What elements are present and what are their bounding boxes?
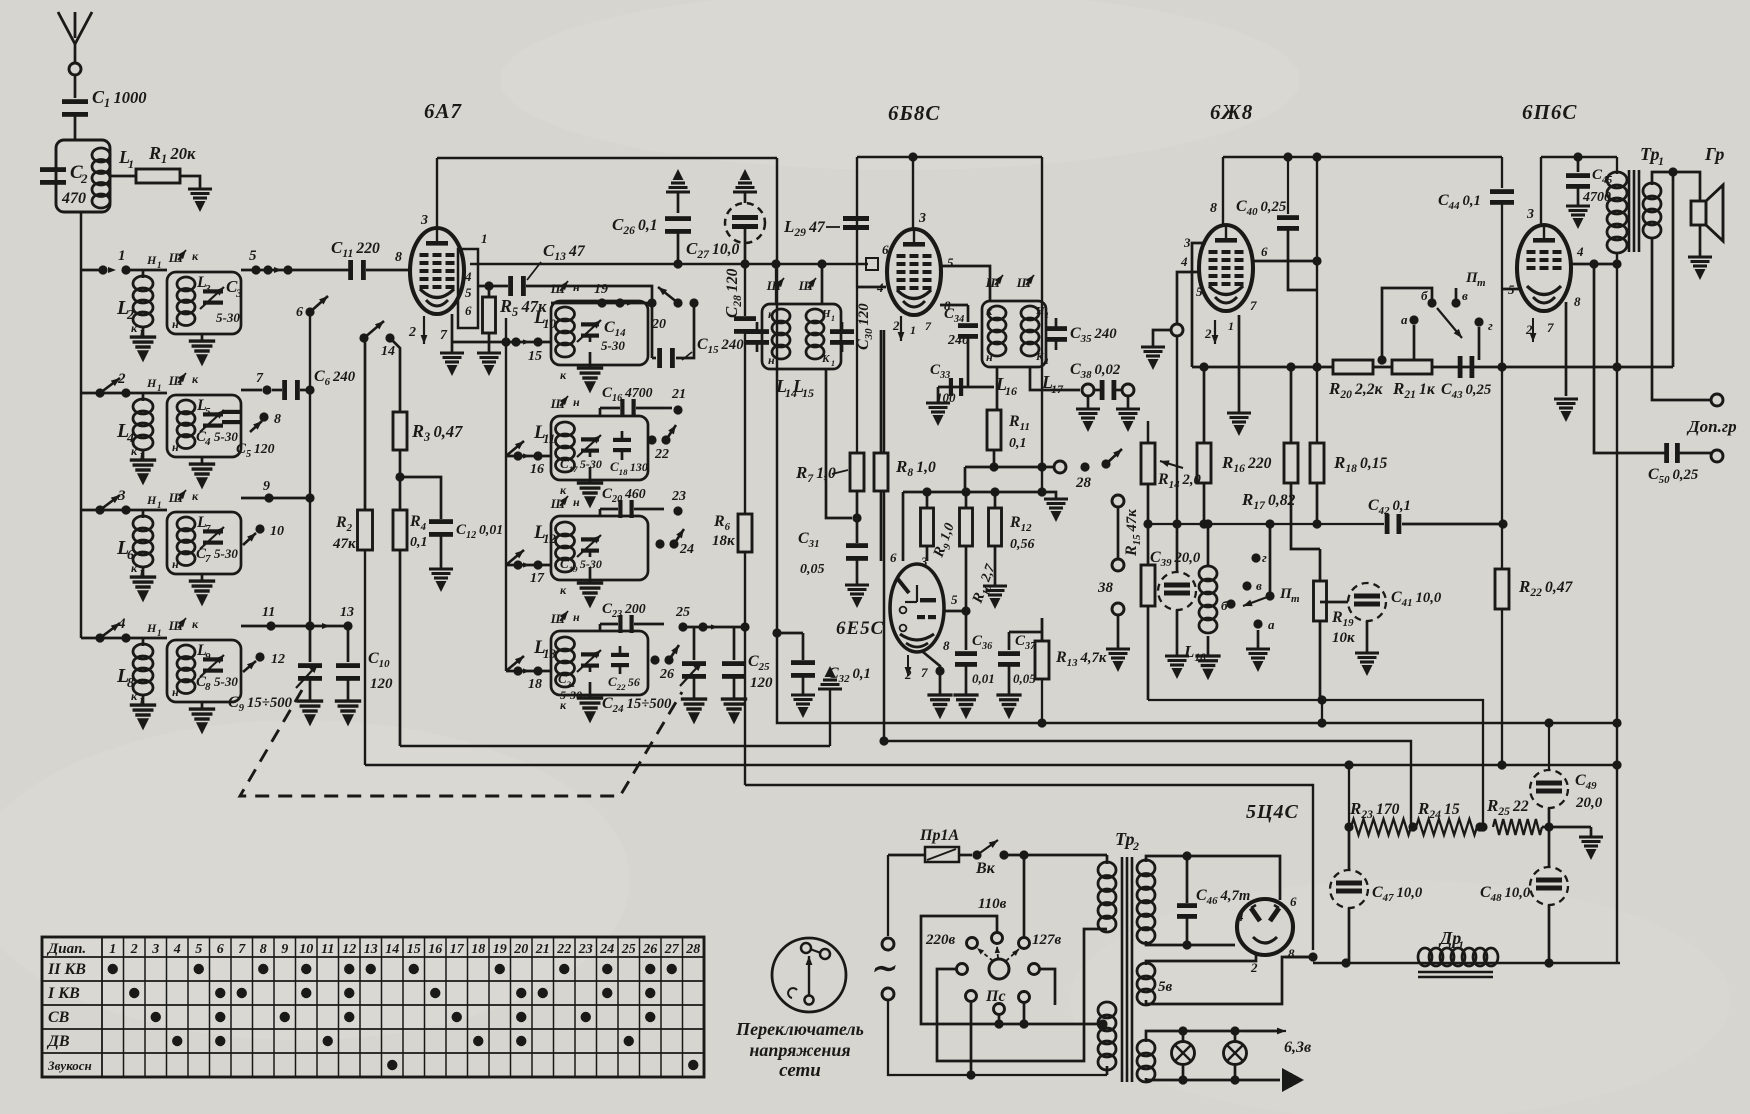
svg-text:R1 20к: R1 20к bbox=[148, 143, 196, 166]
svg-text:0,01: 0,01 bbox=[972, 671, 995, 686]
ground C9 bbox=[297, 679, 323, 726]
stage2 left edge bbox=[856, 157, 858, 287]
mains tilde bbox=[870, 952, 896, 985]
svg-text:19: 19 bbox=[594, 282, 608, 297]
Tr2 6,3v winding bbox=[1137, 1040, 1155, 1082]
capacitor C43 0,25 bbox=[1441, 356, 1491, 401]
svg-text:5: 5 bbox=[465, 285, 472, 300]
svg-text:C1 1000: C1 1000 bbox=[92, 87, 147, 110]
svg-text:2: 2 bbox=[80, 171, 88, 186]
C28 line down bbox=[744, 264, 746, 316]
wire L6 to ground bbox=[142, 568, 145, 576]
svg-text:н: н bbox=[172, 317, 179, 331]
svg-text:20: 20 bbox=[513, 942, 528, 957]
wire C38 right down bbox=[1127, 396, 1130, 408]
contact 4 bbox=[117, 616, 131, 643]
capacitor C37 0,05 bbox=[998, 632, 1036, 686]
svg-text:7: 7 bbox=[205, 553, 211, 565]
rectifier output bbox=[1285, 952, 1318, 961]
contact 9 bbox=[241, 479, 274, 503]
svg-text:R20 2,2к: R20 2,2к bbox=[1328, 379, 1384, 401]
capacitor C33 100 bbox=[930, 362, 963, 405]
svg-text:0,1: 0,1 bbox=[410, 535, 428, 550]
ground C45 bbox=[1566, 188, 1590, 229]
wire R11 to det line bbox=[989, 450, 998, 472]
svg-text:20,0: 20,0 bbox=[1575, 795, 1603, 811]
wire L1 tap to R1 bbox=[110, 175, 136, 178]
paper shading bbox=[0, 720, 630, 1040]
svg-text:2: 2 bbox=[408, 325, 416, 340]
wire lineB to C13 bbox=[506, 285, 508, 288]
terminal Dop.gr lower bbox=[1711, 450, 1723, 462]
coil L12 bbox=[533, 522, 575, 572]
svg-text:к: к bbox=[131, 689, 138, 703]
core symbol row 1 bbox=[168, 248, 199, 265]
wire R19 to bus bbox=[1317, 700, 1326, 728]
svg-text:8: 8 bbox=[260, 942, 267, 957]
resistor R23 170 bbox=[1349, 799, 1411, 835]
resistor R15 47k bbox=[1123, 509, 1155, 606]
wire Pt common bbox=[1265, 519, 1274, 600]
core symbol L13 bbox=[550, 609, 580, 626]
svg-text:R7 1,0: R7 1,0 bbox=[795, 463, 836, 485]
terminal Dop.gr upper bbox=[1711, 394, 1723, 406]
terminal det bbox=[1054, 461, 1066, 473]
svg-text:10: 10 bbox=[299, 942, 313, 957]
label n row 3 bbox=[172, 557, 179, 571]
svg-text:10: 10 bbox=[270, 524, 284, 539]
stage1 box right riser bbox=[829, 690, 831, 746]
svg-text:2: 2 bbox=[1204, 326, 1212, 341]
IF1 coil L15 bbox=[806, 309, 824, 359]
svg-text:3: 3 bbox=[151, 942, 159, 957]
svg-text:7: 7 bbox=[921, 665, 928, 680]
svg-text:1: 1 bbox=[1045, 311, 1049, 320]
label L16 bbox=[995, 374, 1017, 398]
Tr2 primary upper tap bbox=[1084, 929, 1107, 1031]
IF2 coil L17 bbox=[1021, 306, 1039, 356]
label 5Ts4S bbox=[1246, 801, 1299, 823]
node row1 pivot bbox=[98, 265, 116, 274]
wire C38 left down bbox=[1087, 396, 1090, 408]
stage1 box bottom bbox=[400, 745, 830, 747]
Tr2 primary lower bbox=[1098, 1002, 1116, 1075]
wire R12 to ground bbox=[983, 546, 1007, 609]
det line left drop bbox=[902, 492, 905, 561]
svg-text:2: 2 bbox=[892, 318, 900, 333]
svg-text:26: 26 bbox=[659, 667, 674, 682]
wire L2 to ground bbox=[142, 328, 145, 336]
capacitor C28 120 bbox=[722, 268, 756, 333]
grid terminal ground tap bbox=[1141, 330, 1171, 370]
capacitor C12 0,01 bbox=[429, 519, 503, 541]
anode bus 6P6S bbox=[1541, 152, 1617, 161]
wire tank to band bus bbox=[80, 212, 83, 638]
svg-text:7: 7 bbox=[256, 371, 264, 386]
ground L9 bbox=[189, 709, 215, 734]
svg-text:0,05: 0,05 bbox=[1013, 671, 1036, 686]
capacitor C6 240 bbox=[272, 368, 356, 400]
svg-text:28: 28 bbox=[1075, 475, 1092, 491]
svg-text:9: 9 bbox=[263, 479, 270, 494]
grid line B bbox=[478, 285, 506, 288]
label L14 L15 bbox=[775, 376, 814, 400]
tuning gang dashed link bbox=[240, 690, 682, 796]
contact 21 bbox=[664, 387, 686, 415]
wire L17 bottom to C38 bbox=[1030, 367, 1080, 390]
svg-text:5: 5 bbox=[1508, 282, 1515, 297]
resistor R9 1,0 bbox=[921, 492, 961, 561]
wire R1 to ground bbox=[180, 176, 200, 188]
band box L7 bbox=[167, 512, 241, 574]
svg-text:5: 5 bbox=[249, 248, 257, 264]
node C6 bus bbox=[305, 385, 314, 394]
svg-text:12: 12 bbox=[271, 652, 285, 667]
svg-text:5-30: 5-30 bbox=[214, 674, 238, 689]
Pt top wiring bbox=[1382, 288, 1479, 360]
capacitor C23 200 bbox=[600, 601, 664, 633]
svg-text:240: 240 bbox=[947, 333, 969, 348]
Pt bottom contacts bbox=[1221, 550, 1300, 632]
wire L3 to ground bbox=[201, 334, 204, 340]
svg-text:220в: 220в bbox=[925, 932, 956, 948]
wire contact to coils row 2 bbox=[126, 392, 167, 395]
capacitor C46 4,7t bbox=[1177, 856, 1250, 945]
contact 1 bbox=[118, 248, 131, 275]
svg-text:16: 16 bbox=[428, 942, 442, 957]
svg-text:23: 23 bbox=[578, 942, 593, 957]
svg-text:г: г bbox=[1488, 318, 1493, 333]
svg-text:470: 470 bbox=[61, 190, 86, 207]
ground L3 bbox=[189, 341, 215, 366]
mains left wire bbox=[887, 855, 889, 936]
coil L7 bbox=[177, 514, 211, 566]
resistor R5 47k bbox=[483, 286, 548, 333]
svg-text:24: 24 bbox=[599, 942, 614, 957]
svg-text:18: 18 bbox=[528, 677, 542, 692]
svg-text:7: 7 bbox=[440, 328, 448, 343]
pin1 6Zh8 bbox=[1228, 315, 1239, 412]
svg-text:к: к bbox=[768, 307, 775, 321]
pin5 6B8C bbox=[942, 255, 990, 301]
contact 13 bbox=[340, 605, 354, 631]
svg-text:к: к bbox=[560, 483, 567, 497]
svg-text:2: 2 bbox=[117, 371, 126, 387]
label seti bbox=[779, 1060, 821, 1081]
svg-text:к: к bbox=[192, 489, 199, 503]
stage2 top bus bbox=[857, 156, 1042, 159]
contact 11 bbox=[241, 605, 276, 631]
switch Vk bbox=[959, 837, 1009, 877]
svg-text:127в: 127в bbox=[1032, 932, 1062, 948]
wire R7 down bbox=[856, 491, 859, 518]
svg-text:R3 0,47: R3 0,47 bbox=[411, 421, 463, 444]
ground C25 bbox=[721, 677, 747, 724]
svg-text:R18 0,15: R18 0,15 bbox=[1333, 453, 1388, 475]
svg-text:14: 14 bbox=[385, 942, 399, 957]
svg-text:н: н bbox=[573, 610, 580, 624]
svg-text:2: 2 bbox=[130, 942, 138, 957]
bus y743 bbox=[884, 741, 1411, 827]
svg-text:1: 1 bbox=[128, 157, 134, 171]
voltage switch lower contact bbox=[788, 988, 813, 1004]
capacitor C26 0,1 bbox=[612, 215, 691, 237]
electrolytic C48 10,0 bbox=[1480, 827, 1568, 963]
voltage switch arrow bbox=[806, 956, 813, 996]
electrolytic C41 10,0 bbox=[1320, 583, 1442, 621]
svg-text:16: 16 bbox=[530, 462, 544, 477]
svg-text:6: 6 bbox=[1261, 244, 1268, 259]
svg-text:6А7: 6А7 bbox=[424, 99, 463, 123]
wire antenna to C1 bbox=[74, 75, 77, 98]
wire R9 to pin3 6E5C bbox=[926, 546, 929, 561]
svg-text:22: 22 bbox=[654, 447, 669, 462]
svg-text:R16 220: R16 220 bbox=[1221, 453, 1272, 475]
label C30 120 bbox=[855, 303, 875, 350]
svg-text:C11 220: C11 220 bbox=[331, 238, 380, 260]
svg-text:1: 1 bbox=[831, 314, 835, 323]
contact 7 bbox=[256, 371, 272, 395]
svg-text:Переключатель: Переключатель bbox=[735, 1019, 864, 1039]
coil L10 bbox=[533, 307, 575, 357]
tube 6E5C bbox=[890, 564, 944, 652]
Pt top arm bbox=[1437, 308, 1465, 340]
svg-text:3: 3 bbox=[117, 488, 126, 504]
svg-text:4: 4 bbox=[464, 269, 472, 284]
node R25 right bbox=[1542, 822, 1591, 831]
contact sel br bbox=[1019, 992, 1030, 1003]
ground C24 bbox=[681, 677, 707, 724]
antenna terminal bbox=[69, 63, 81, 75]
label C19 5-30 bbox=[560, 556, 602, 574]
svg-text:н: н bbox=[768, 353, 775, 367]
svg-text:24: 24 bbox=[679, 542, 694, 557]
pins 1 7 6B8C bbox=[910, 319, 932, 337]
coil L1 bbox=[92, 147, 134, 208]
svg-text:12: 12 bbox=[543, 531, 557, 546]
capacitor C11 220 bbox=[331, 238, 380, 280]
ground speaker bbox=[1688, 225, 1712, 280]
svg-text:110в: 110в bbox=[978, 896, 1007, 912]
svg-text:6: 6 bbox=[296, 305, 303, 320]
contact 23 bbox=[671, 489, 686, 516]
svg-text:11: 11 bbox=[543, 431, 555, 446]
svg-text:0,1: 0,1 bbox=[1009, 436, 1027, 451]
lamp 1 bbox=[1172, 1031, 1195, 1080]
svg-text:6: 6 bbox=[217, 942, 224, 957]
svg-text:н: н bbox=[573, 395, 580, 409]
capacitor C40 0,25 bbox=[1236, 152, 1317, 290]
resistor R12 0,56 bbox=[989, 492, 1035, 552]
svg-text:5: 5 bbox=[195, 942, 202, 957]
ground C38 right bbox=[1116, 409, 1140, 432]
svg-text:н: н bbox=[986, 350, 993, 364]
label Tr1 bbox=[1640, 144, 1664, 168]
selector center Ps bbox=[985, 959, 1009, 1005]
pin3 6P6S bbox=[1526, 157, 1541, 226]
wire br contact bbox=[1023, 1002, 1026, 1024]
resistor R2 47k bbox=[332, 338, 373, 552]
transformer Tr1 secondary bbox=[1643, 183, 1661, 238]
ground R1 bbox=[188, 189, 212, 212]
det drop bbox=[964, 467, 967, 492]
resistor R11 0,1 bbox=[987, 410, 1030, 451]
svg-text:к: к bbox=[986, 304, 993, 318]
wire bus row1 bbox=[241, 248, 349, 275]
ground C33 bbox=[926, 387, 950, 426]
resistor R14 2,0 bbox=[1141, 421, 1202, 491]
svg-text:к: к bbox=[192, 249, 199, 263]
svg-text:5: 5 bbox=[951, 592, 958, 607]
trimmer C17 bbox=[577, 432, 603, 457]
bus y367 bbox=[1192, 362, 1673, 371]
wire R8 down bbox=[880, 491, 883, 561]
svg-text:12: 12 bbox=[342, 942, 356, 957]
svg-text:1: 1 bbox=[157, 260, 162, 270]
wire row 2 bbox=[81, 392, 126, 395]
osc box L13 bbox=[551, 631, 648, 695]
svg-text:Звукосн: Звукосн bbox=[47, 1058, 92, 1073]
Tr1 core bbox=[1629, 170, 1639, 252]
svg-text:15: 15 bbox=[407, 942, 421, 957]
resistor R3 0,47 bbox=[393, 412, 463, 450]
R23 left node bbox=[1344, 822, 1353, 831]
electrolytic C47 10,0 bbox=[1330, 827, 1423, 963]
label 6A7 bbox=[424, 99, 463, 123]
electrolytic C49 20,0 bbox=[1530, 718, 1603, 827]
wire 110v tap bbox=[921, 916, 1103, 1029]
label 6Zh8 bbox=[1210, 100, 1253, 124]
svg-text:к: к bbox=[560, 368, 567, 382]
wire Vk to Tr2 bbox=[1004, 850, 1107, 859]
svg-text:10к: 10к bbox=[1332, 630, 1355, 646]
HV top wire bbox=[1146, 851, 1280, 900]
capacitor C42 0,1 bbox=[1368, 497, 1508, 534]
wire L4 to ground bbox=[142, 451, 145, 459]
wire Pt-a ground bbox=[1246, 630, 1270, 672]
svg-text:Пс: Пс bbox=[985, 988, 1006, 1005]
svg-text:1: 1 bbox=[157, 383, 162, 393]
Tr1 secondary bottom wire bbox=[1652, 237, 1711, 400]
svg-text:6: 6 bbox=[890, 550, 897, 565]
svg-text:К: К bbox=[821, 353, 830, 365]
svg-text:5-30: 5-30 bbox=[560, 688, 582, 702]
svg-text:Диап.: Диап. bbox=[46, 941, 86, 957]
core symbol row 4 bbox=[168, 616, 199, 633]
label 6B8C bbox=[888, 101, 940, 125]
svg-text:20: 20 bbox=[651, 317, 666, 332]
svg-text:СВ: СВ bbox=[48, 1009, 70, 1026]
capacitor C22 56 bbox=[608, 646, 640, 692]
svg-text:4: 4 bbox=[1576, 244, 1584, 259]
pin4 6B8C bbox=[857, 280, 886, 295]
svg-text:47к: 47к bbox=[332, 536, 356, 552]
resistor R10 2,7 bbox=[960, 492, 1002, 607]
resistor R4 0,1 bbox=[393, 510, 428, 550]
band box L3 bbox=[167, 272, 241, 334]
resistor R6 18k bbox=[712, 513, 752, 552]
wire C1 to tank bbox=[74, 113, 77, 140]
svg-text:13: 13 bbox=[340, 605, 354, 620]
label C14 5-30 bbox=[601, 319, 626, 353]
IF2 labels bbox=[986, 304, 1049, 366]
svg-text:напряжения: напряжения bbox=[749, 1040, 850, 1060]
wire 11 to 13 bbox=[271, 621, 348, 630]
svg-text:8: 8 bbox=[274, 412, 281, 427]
selector arrows bbox=[975, 946, 1021, 961]
ground above C26 bbox=[666, 169, 690, 213]
wire R15 bottom bbox=[1147, 606, 1150, 700]
svg-text:5-30: 5-30 bbox=[216, 310, 240, 325]
svg-text:б: б bbox=[1421, 288, 1428, 303]
svg-text:17: 17 bbox=[450, 942, 465, 957]
svg-text:18к: 18к bbox=[712, 533, 735, 549]
contact 8 bbox=[250, 412, 281, 432]
bus AVC y765 bbox=[365, 764, 1620, 766]
coil L2 bbox=[116, 253, 162, 338]
svg-text:Н: Н bbox=[146, 621, 157, 635]
contact 6 bbox=[296, 293, 330, 320]
wire 9 to switch bus bbox=[269, 497, 310, 500]
Tr2 core bbox=[1122, 857, 1132, 1082]
svg-text:9: 9 bbox=[281, 942, 288, 957]
svg-text:н: н bbox=[573, 495, 580, 509]
wire bc contact bbox=[998, 1014, 1001, 1024]
svg-text:8: 8 bbox=[205, 681, 211, 693]
lamp 2 bbox=[1224, 1031, 1247, 1080]
pin6 6Zh8 bbox=[1253, 244, 1322, 266]
wire to C12 bbox=[400, 477, 441, 519]
wire 25 row bbox=[683, 622, 750, 631]
terminal 38 upper bbox=[1112, 495, 1124, 559]
ground L8 bbox=[130, 705, 156, 730]
IF1 right cap bbox=[830, 322, 854, 352]
svg-text:в: в bbox=[1462, 288, 1468, 303]
contact 19 row bbox=[551, 282, 648, 308]
svg-text:6Е5С: 6Е5С bbox=[836, 618, 884, 639]
coil L8 bbox=[116, 621, 162, 706]
svg-text:6: 6 bbox=[882, 242, 889, 257]
capacitor C35 240 bbox=[1045, 318, 1117, 350]
switch arm 14 bbox=[359, 318, 386, 342]
pins 2 7 6P6S bbox=[1525, 318, 1554, 342]
voltage switch contacts bbox=[801, 943, 830, 959]
IF2 core symbols bbox=[985, 273, 1037, 290]
osc switch bus bbox=[505, 318, 507, 671]
switch bus vertical bbox=[309, 312, 311, 626]
contact sel bc bbox=[994, 1004, 1005, 1015]
svg-text:Н: Н bbox=[821, 308, 831, 320]
anode line A bbox=[470, 263, 868, 266]
contact 24 pair bbox=[655, 527, 694, 557]
switch arm band 3 bbox=[95, 492, 122, 514]
coil L9 bbox=[177, 642, 211, 694]
contact sel left bbox=[957, 964, 968, 975]
contact 110v bbox=[978, 896, 1007, 944]
osc box L10 bbox=[551, 301, 648, 365]
svg-text:Тр: Тр bbox=[1115, 829, 1135, 849]
wire a stub bbox=[1377, 355, 1386, 364]
svg-text:Вк: Вк bbox=[975, 860, 996, 877]
svg-text:27: 27 bbox=[664, 942, 680, 957]
riser R23 to AVC bbox=[1344, 760, 1353, 827]
wire L7 to ground bbox=[201, 574, 204, 580]
label 15 bbox=[528, 349, 542, 364]
svg-text:∼: ∼ bbox=[870, 952, 896, 985]
tube 6A7 bbox=[410, 228, 464, 314]
svg-text:8: 8 bbox=[943, 638, 950, 653]
label Tr2 bbox=[1115, 829, 1139, 853]
